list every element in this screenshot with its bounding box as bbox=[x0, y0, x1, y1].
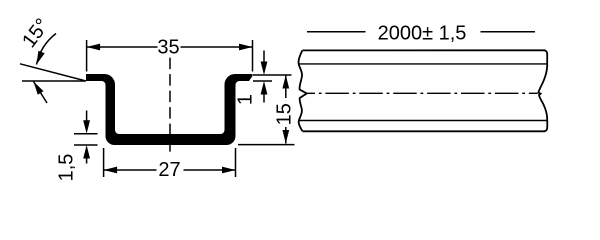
svg-text:1: 1 bbox=[235, 94, 257, 105]
svg-text:35: 35 bbox=[157, 36, 179, 58]
svg-text:1,5: 1,5 bbox=[56, 154, 78, 182]
svg-text:27: 27 bbox=[158, 159, 180, 181]
svg-text:2000± 1,5: 2000± 1,5 bbox=[378, 23, 467, 45]
svg-text:15: 15 bbox=[274, 103, 296, 125]
